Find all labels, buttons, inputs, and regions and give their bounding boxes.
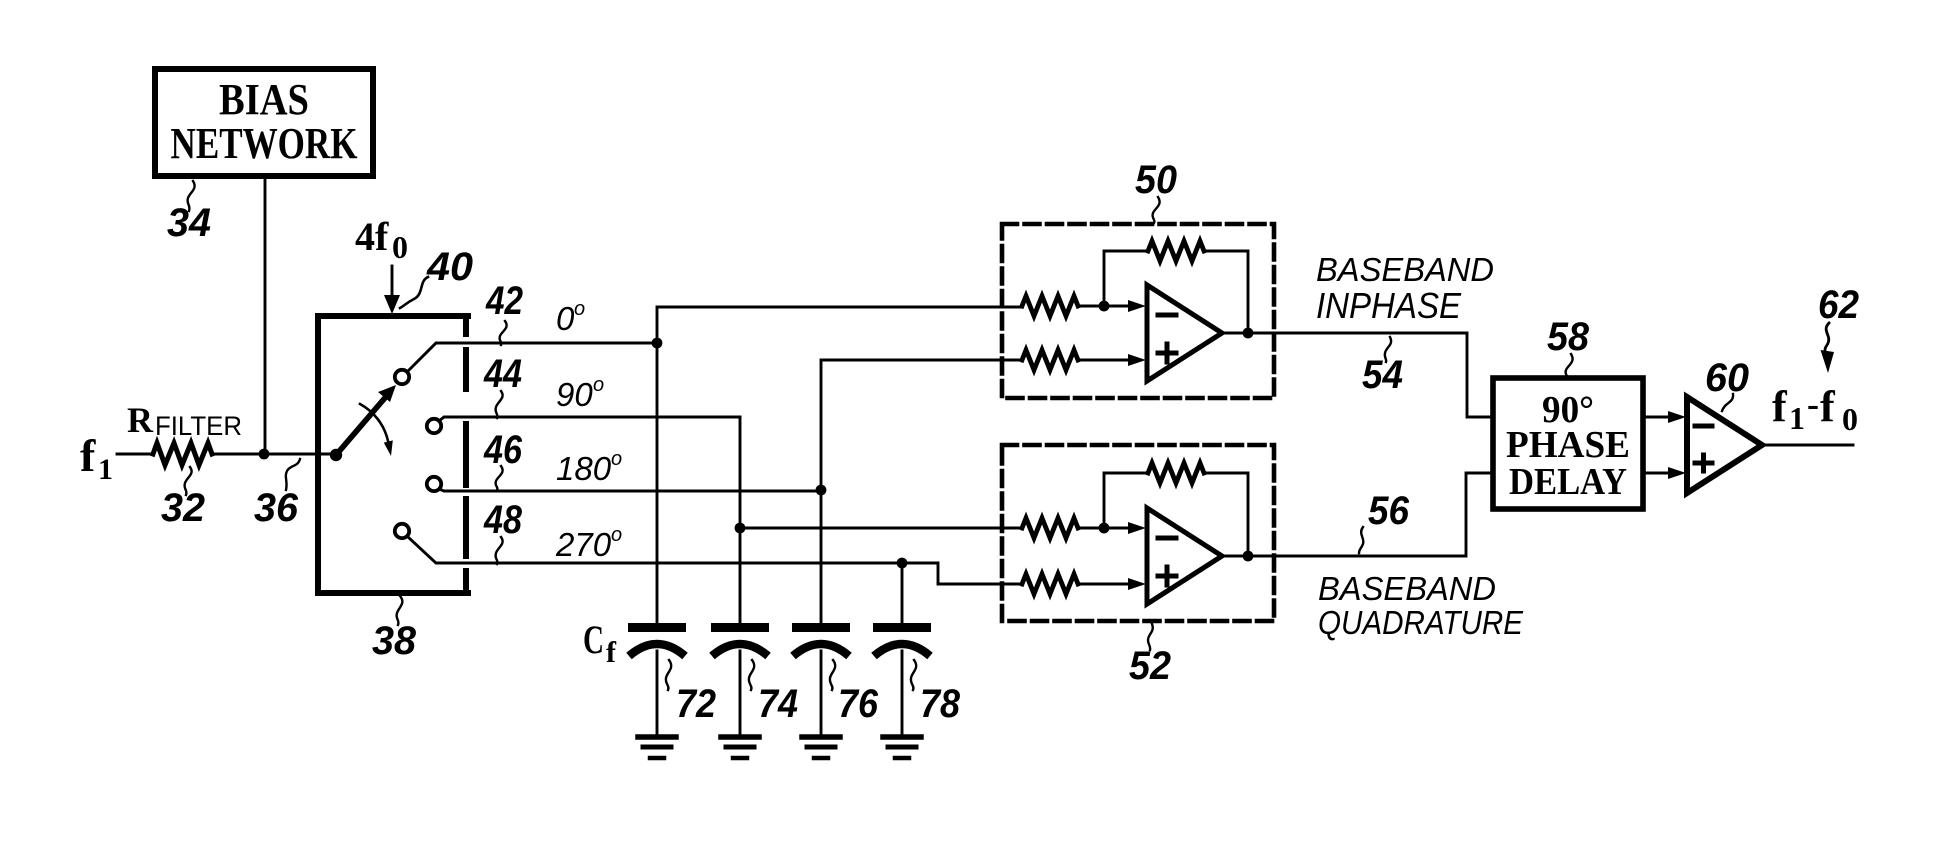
svg-text:38: 38 (372, 619, 417, 663)
resistor R50a minus input (1022, 296, 1078, 316)
ground G76 (802, 737, 840, 758)
wire 180deg from contact (439, 489, 821, 491)
wire D jog to op52 plus (902, 563, 1022, 584)
switch contact 270deg (395, 524, 409, 538)
wire bias to node 36 (264, 179, 267, 454)
switch common node dot (330, 449, 342, 461)
label 90deg (556, 374, 604, 413)
wire f1 input (117, 453, 153, 456)
label 58 (1547, 315, 1590, 379)
wire 56 baseband quadrature (1222, 473, 1493, 556)
svg-text:270: 270 (555, 526, 612, 563)
phase delay box 58 (1493, 378, 1643, 509)
svg-text:1: 1 (1789, 400, 1805, 436)
resistor R_FILTER 32 (153, 443, 212, 465)
svg-text:62: 62 (1818, 283, 1859, 327)
label f1-f0 (1772, 382, 1858, 437)
wire vertical C 180deg to op50 plus and cap76 (821, 360, 1022, 625)
svg-text:180: 180 (556, 450, 612, 487)
wire to op52 minus with arrow (1078, 522, 1146, 534)
svg-text:0: 0 (392, 229, 408, 265)
svg-text:46: 46 (483, 428, 522, 472)
svg-text:f: f (1772, 382, 1788, 431)
wire 90deg from contact (439, 417, 740, 421)
svg-text:o: o (611, 448, 622, 470)
label 42 (485, 279, 523, 345)
capacitor C72 (628, 623, 686, 734)
op-amp U60 (1687, 397, 1762, 493)
op-amp U52 (1147, 508, 1222, 604)
svg-text:48: 48 (483, 498, 522, 542)
svg-text:0: 0 (1842, 401, 1858, 437)
capacitor C76 (792, 623, 850, 734)
svg-text:60: 60 (1705, 356, 1749, 400)
label 54 (1362, 337, 1403, 397)
label 4f0 clock (355, 214, 408, 265)
svg-text:PHASE: PHASE (1506, 424, 1630, 466)
wire B branch to op52 minus (740, 527, 1022, 530)
svg-text:DELAY: DELAY (1509, 461, 1627, 503)
capacitor C78 (873, 623, 931, 734)
node D junction dot (897, 558, 908, 569)
label 74 (749, 660, 798, 726)
node 42 junction dot (652, 338, 663, 349)
label 34 (167, 181, 211, 245)
wire phase delay to op60 minus with arrow (1643, 411, 1686, 423)
svg-text:44: 44 (483, 352, 522, 396)
svg-text:o: o (593, 374, 604, 396)
svg-text:C: C (583, 617, 604, 662)
switch contact 180deg (427, 477, 441, 491)
svg-text:58: 58 (1547, 315, 1590, 359)
svg-text:1: 1 (98, 453, 113, 486)
wire op50 feedback loop (1104, 251, 1148, 306)
label 56 (1359, 489, 1410, 553)
wire to op52 plus with arrow (1078, 578, 1146, 590)
wire resistor to switch (212, 453, 336, 456)
svg-text:BIAS: BIAS (219, 75, 309, 124)
wire output f1-f0 (1762, 444, 1853, 447)
wire to op50 minus with arrow (1078, 300, 1146, 312)
wire 270deg from contact (407, 536, 902, 563)
bias network box U:BIAS (155, 69, 373, 176)
svg-text:BASEBAND: BASEBAND (1318, 570, 1496, 607)
resistor R50b plus input (1022, 350, 1078, 370)
switch arm SW (336, 385, 396, 455)
svg-text:56: 56 (1368, 489, 1410, 533)
capacitor C74 (711, 623, 769, 734)
svg-text:76: 76 (838, 682, 879, 726)
node op50 feedback tap dot (1099, 301, 1110, 312)
label 44 (483, 352, 522, 418)
node op50 output dot (1243, 328, 1254, 339)
label 72 (666, 660, 716, 726)
wire vertical D 270deg to cap78 (901, 563, 904, 625)
label 50 (1135, 158, 1177, 223)
wire feedback to output (1204, 473, 1248, 556)
label 60 (1705, 356, 1749, 411)
label 32 (161, 467, 205, 530)
svg-text:90: 90 (556, 376, 593, 413)
wire 54 baseband inphase (1222, 333, 1493, 417)
wire to op50 plus with arrow (1078, 354, 1146, 366)
label 62 with arrow (1818, 283, 1859, 373)
svg-text:36: 36 (254, 486, 299, 530)
wire op52 feedback loop (1104, 473, 1148, 528)
ground G72 (638, 737, 676, 758)
node op52 feedback tap dot (1099, 523, 1110, 534)
switch rotation arc (360, 404, 393, 456)
label 78 (911, 660, 961, 726)
label 36 (254, 459, 300, 530)
svg-text:72: 72 (676, 682, 716, 726)
wire vertical A 0deg to op50 minus and cap72 (657, 307, 1022, 625)
label 52 (1129, 624, 1171, 688)
node 36 junction dot (259, 449, 270, 460)
svg-text:f: f (1820, 382, 1836, 431)
label BASEBAND INPHASE (1316, 251, 1494, 326)
switch box 38 outline (318, 316, 468, 593)
amplifier block 52 dashed box (1002, 445, 1274, 621)
svg-text:QUADRATURE: QUADRATURE (1318, 604, 1524, 641)
resistor R52b plus input (1022, 574, 1078, 594)
label 48 (483, 498, 522, 564)
svg-text:74: 74 (758, 682, 798, 726)
svg-text:-: - (1807, 384, 1819, 424)
node op52 output dot (1243, 551, 1254, 562)
resistor R50f feedback (1148, 241, 1204, 261)
label 0deg (556, 298, 585, 337)
node f1 input label (80, 430, 113, 486)
label 180deg (556, 448, 622, 487)
switch contact 90deg (427, 419, 441, 433)
label BASEBAND QUADRATURE (1318, 570, 1524, 641)
svg-text:BASEBAND: BASEBAND (1316, 251, 1494, 288)
amplifier block 50 dashed box (1002, 224, 1274, 398)
op-amp U50 (1147, 285, 1222, 381)
label R_FILTER (127, 400, 242, 441)
resistor R52f feedback (1148, 463, 1204, 483)
svg-text:32: 32 (161, 486, 205, 530)
wire feedback to output (1204, 251, 1248, 333)
svg-text:40: 40 (426, 245, 473, 289)
svg-text:54: 54 (1362, 353, 1403, 397)
label 46 (483, 428, 522, 490)
svg-text:R: R (127, 400, 154, 440)
label 38 (372, 596, 417, 663)
svg-text:o: o (611, 524, 622, 546)
svg-text:INPHASE: INPHASE (1316, 285, 1462, 326)
svg-text:50: 50 (1135, 158, 1177, 202)
svg-text:78: 78 (920, 682, 961, 726)
label 76 (830, 660, 879, 726)
svg-text:0: 0 (556, 300, 575, 337)
svg-text:o: o (574, 298, 585, 320)
ground G78 (883, 737, 921, 758)
wire 0deg from contact (407, 343, 657, 372)
node C junction dot (816, 485, 827, 496)
node B junction dot (735, 523, 746, 534)
label 40 (400, 245, 473, 308)
resistor R52a minus input (1022, 518, 1078, 538)
label 270deg (555, 524, 622, 563)
switch box right dashed edge (463, 316, 469, 593)
svg-text:42: 42 (485, 279, 523, 323)
label Cf (583, 617, 617, 669)
wire phase delay to op60 plus with arrow (1643, 467, 1686, 479)
wire vertical B 90deg to cap74 (739, 417, 742, 625)
svg-text:FILTER: FILTER (155, 411, 242, 441)
switch contact 0deg (395, 370, 409, 384)
arrow 4f0 into switch (384, 266, 400, 314)
ground G74 (721, 737, 759, 758)
svg-text:f: f (606, 636, 617, 669)
svg-text:NETWORK: NETWORK (171, 119, 358, 168)
svg-text:f: f (80, 430, 96, 481)
svg-text:4f: 4f (355, 214, 389, 259)
